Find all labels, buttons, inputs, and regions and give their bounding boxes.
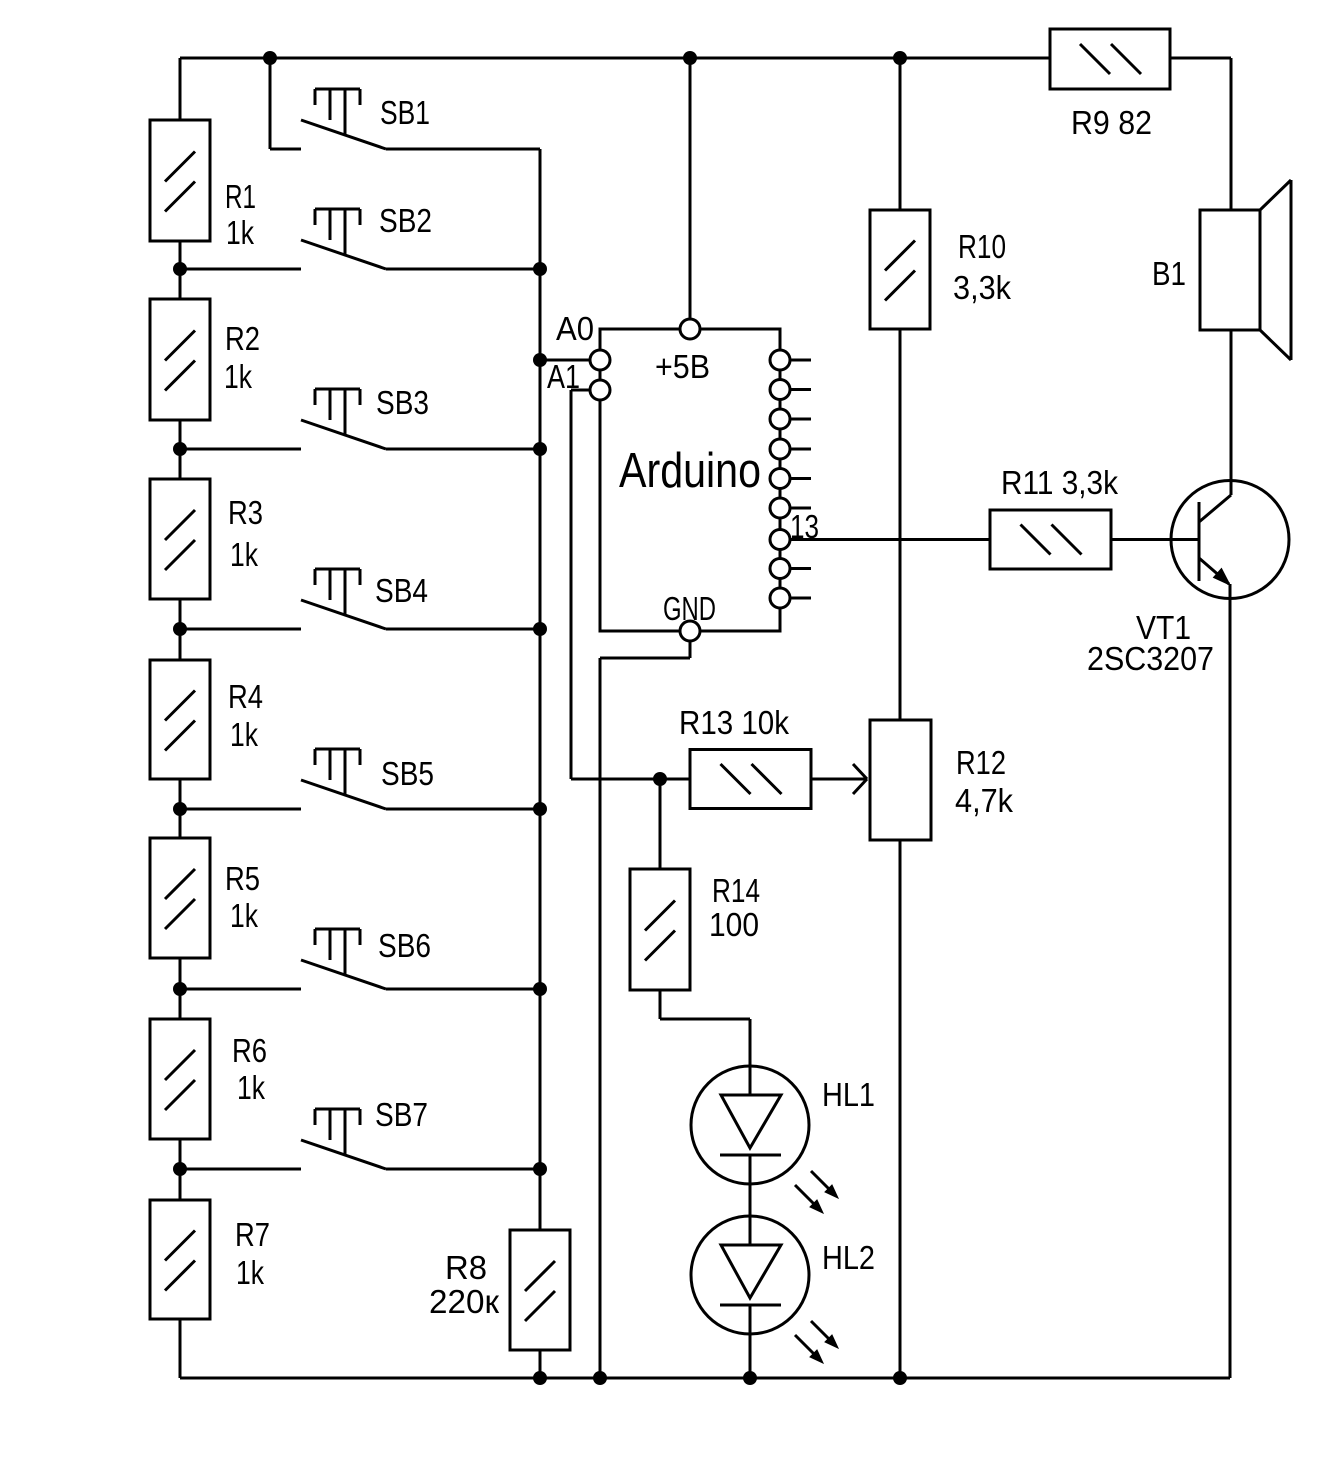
label R2 value [224,320,260,395]
node keys bus junction y=629 [533,622,547,636]
label B1 [1152,255,1186,292]
svg-text:220к: 220к [429,1283,500,1320]
svg-text:HL1: HL1 [822,1076,875,1113]
node R12 bottom junction [893,1371,907,1385]
resistor R10 [870,210,930,329]
label R8 value [429,1249,500,1320]
wire junction to R14 [659,779,662,869]
pushbutton SB7 [301,1109,386,1169]
label HL2 [822,1239,875,1276]
wire SB4 left connection [180,628,301,631]
wire A1 node to R13 [571,778,690,781]
wire R13 to wiper [811,778,867,781]
label R10 value [953,228,1011,306]
node keys bus junction y=1169 [533,1162,547,1176]
speaker B1 [1200,180,1291,360]
arrows HL1 light [795,1171,838,1213]
pin GND [680,621,700,641]
wire bottom bus [180,1377,1230,1380]
wire SB4 right connection [386,628,540,631]
wire HL2 to bottom bus [749,1305,752,1378]
node chain junction row 629 [173,622,187,636]
pin right 5 [770,469,790,489]
wire top +5V bus [180,57,1050,60]
node R8 bottom junction [533,1371,547,1385]
node keys bus junction y=809 [533,802,547,816]
resistor R13 [690,750,811,809]
wire SB2 right connection [386,268,540,271]
wire chain segment R4-R5 [179,779,182,838]
pin A1 [590,380,610,400]
wire stub right pin 3 [790,418,811,421]
label SB5 [381,755,434,792]
wire SB1 right connection [386,148,540,151]
pin right 8 [770,559,790,579]
wire chain segment R3-R4 [179,599,182,660]
label VT1 value [1087,609,1214,677]
wire R10 top [899,58,902,210]
resistor R14 [630,869,690,990]
pin +5B [680,319,700,339]
wire chain segment R2-R3 [179,420,182,479]
wire R8 bottom [539,1350,542,1378]
wire pin13 to R11 [790,538,990,541]
node chain junction row 449 [173,442,187,456]
node SB1 top bus junction [263,51,277,65]
label R1 value [225,178,256,251]
pin right 9 [770,588,790,608]
svg-text:R5: R5 [225,860,260,897]
svg-text:+5B: +5B [655,348,710,385]
wire R10 to R12 [899,329,902,720]
pushbutton SB6 [301,929,386,989]
label R5 value [225,860,260,934]
svg-text:R10: R10 [958,228,1006,265]
pin right 3 [770,409,790,429]
node chain junction row 809 [173,802,187,816]
svg-text:R2: R2 [225,320,260,357]
arrow R12 wiper [853,764,867,794]
svg-text:GND: GND [663,590,716,627]
LED HL1 [691,1066,809,1184]
wire emitter to bottom bus [1229,584,1232,1378]
wire stub right pin 6 [790,507,811,510]
svg-text:A0: A0 [556,310,594,347]
wire R9 to speaker [1170,58,1231,210]
label R7 value [235,1216,270,1291]
wire SB1 left connection [270,58,301,149]
svg-text:SB6: SB6 [378,927,431,964]
label SB4 [375,572,428,609]
svg-text:100: 100 [709,906,759,943]
pushbutton SB5 [301,749,386,809]
svg-text:1k: 1k [230,536,258,573]
wire stub right pin 2 [790,388,811,391]
resistor R9 [1050,29,1170,89]
svg-text:R8: R8 [445,1249,487,1286]
label SB1 [380,94,430,131]
pin right 2 [770,380,790,400]
svg-text:3,3k: 3,3k [953,269,1011,306]
wire GND connection [600,641,690,1378]
LED HL2 [691,1216,809,1334]
label pin 13 [790,508,819,545]
wire stub right pin 4 [790,448,811,451]
svg-text:1k: 1k [224,358,252,395]
svg-text:1k: 1k [236,1254,264,1291]
label SB6 [378,927,431,964]
label R3 value [228,494,263,573]
wire A1 connection [571,390,590,779]
arrows HL2 light [795,1321,838,1363]
transistor VT1 [1171,481,1289,599]
wire SB2 left connection [180,268,301,271]
label R12 value [955,744,1013,819]
wire SB5 left connection [180,808,301,811]
pin right 4 [770,439,790,459]
svg-text:1k: 1k [226,214,254,251]
label R11 value [1001,464,1118,501]
label R9 value [1071,104,1152,141]
svg-text:R12: R12 [956,744,1006,781]
wire stub right pin 5 [790,477,811,480]
svg-text:R4: R4 [228,678,263,715]
wire keys bus vertical [539,149,542,1230]
wire speaker to collector [1230,330,1233,495]
resistor R11 [990,510,1111,569]
node keys bus junction y=360 [533,353,547,367]
svg-text:R3: R3 [228,494,263,531]
pushbutton SB2 [301,209,386,269]
resistor R2 [150,299,210,420]
resistor R3 [150,479,210,599]
node chain junction row 1169 [173,1162,187,1176]
label R4 value [228,678,263,753]
wire +5B connection [689,58,692,319]
svg-text:2SC3207: 2SC3207 [1087,640,1214,677]
svg-text:SB7: SB7 [375,1096,428,1133]
op-amp U1 Arduino box [600,329,780,631]
node R10 top bus junction [893,51,907,65]
resistor R6 [150,1019,210,1139]
wire stub right pin 1 [790,359,811,362]
label R13 value [679,704,789,741]
svg-text:1k: 1k [237,1069,265,1106]
wire HL1 to HL2 [749,1155,752,1245]
wire left chain top segment [179,58,182,120]
wire R11 to base [1111,538,1199,541]
node chain junction row 989 [173,982,187,996]
wire chain segment R6-R7 [179,1139,182,1200]
node +5B top bus junction [683,51,697,65]
resistor R1 [150,120,210,241]
node keys bus junction y=269 [533,262,547,276]
label SB2 [379,202,432,239]
wire R12 bottom [899,840,902,1378]
svg-text:1k: 1k [230,897,258,934]
svg-text:1k: 1k [230,716,258,753]
wire SB6 left connection [180,988,301,991]
pushbutton SB3 [301,389,386,449]
svg-text:R7: R7 [235,1216,270,1253]
svg-text:SB1: SB1 [380,94,430,131]
wire chain bottom segment [179,1319,182,1378]
resistor R4 [150,660,210,779]
svg-text:4,7k: 4,7k [955,782,1013,819]
pin right 1 [770,350,790,370]
svg-text:R9 82: R9 82 [1071,104,1152,141]
wire A0 connection [540,359,590,362]
wire SB5 right connection [386,808,540,811]
potentiometer R12 [870,720,931,840]
label SB3 [376,384,429,421]
wire SB7 left connection [180,1168,301,1171]
label A1 [547,358,580,395]
pin 13 [770,530,790,550]
node keys bus junction y=449 [533,442,547,456]
svg-text:SB3: SB3 [376,384,429,421]
pushbutton SB4 [301,569,386,629]
resistor R5 [150,838,210,958]
svg-text:SB4: SB4 [375,572,428,609]
wire SB3 left connection [180,448,301,451]
node GND bottom junction [593,1371,607,1385]
svg-text:HL2: HL2 [822,1239,875,1276]
pin right 6 [770,498,790,518]
node HL2 bottom junction [743,1371,757,1385]
label Arduino [619,444,761,498]
wire SB3 right connection [386,448,540,451]
svg-text:Arduino: Arduino [619,444,761,498]
label +5B [655,348,710,385]
svg-text:R14: R14 [712,872,760,909]
node R13-R14 junction [653,772,667,786]
label HL1 [822,1076,875,1113]
wire SB6 right connection [386,988,540,991]
svg-text:B1: B1 [1152,255,1186,292]
pushbutton SB1 [301,89,386,149]
svg-text:R1: R1 [225,178,256,215]
node chain junction row 269 [173,262,187,276]
svg-text:SB2: SB2 [379,202,432,239]
wire chain segment R5-R6 [179,958,182,1019]
label R6 value [232,1032,267,1106]
label SB7 [375,1096,428,1133]
svg-text:R6: R6 [232,1032,267,1069]
wire SB7 right connection [386,1168,540,1171]
node keys bus junction y=989 [533,982,547,996]
svg-text:R13 10k: R13 10k [679,704,789,741]
pin A0 [590,350,610,370]
wire stub right pin 8 [790,567,811,570]
svg-text:R11 3,3k: R11 3,3k [1001,464,1118,501]
resistor R8 [510,1230,570,1350]
resistor R7 [150,1200,210,1319]
label R14 value [709,872,760,943]
label A0 [556,310,594,347]
label GND [663,590,716,627]
wire stub right pin 9 [790,597,811,600]
svg-text:SB5: SB5 [381,755,434,792]
wire chain segment R1-R2 [179,241,182,299]
wire R14 to HL1 [660,990,750,1095]
